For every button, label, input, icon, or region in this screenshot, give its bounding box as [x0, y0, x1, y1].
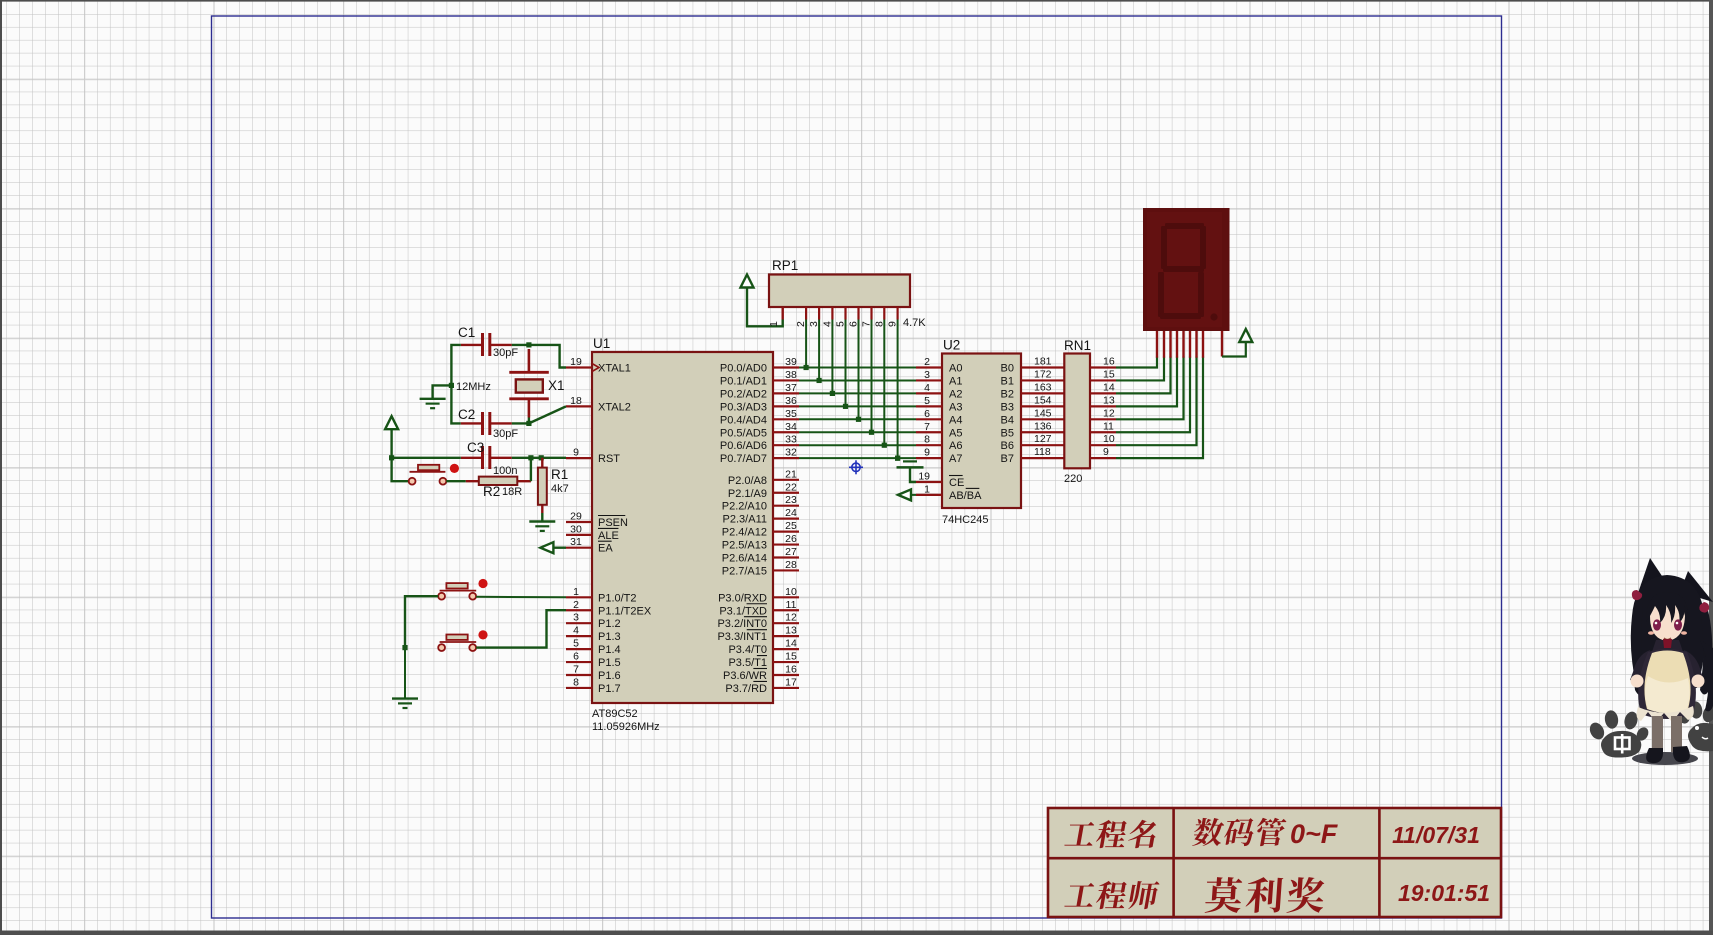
- svg-text:220: 220: [1064, 473, 1082, 485]
- ground at crystal: [420, 398, 446, 400]
- svg-text:1: 1: [924, 483, 930, 495]
- display segment pin 3: [1169, 331, 1171, 358]
- wire R2 to RST junction: [530, 458, 532, 481]
- U1 pin 26 P2.5/A13: [722, 533, 799, 552]
- svg-text:4.7K: 4.7K: [903, 317, 926, 329]
- svg-text:15: 15: [1103, 368, 1115, 380]
- U1 pin 3 P1.2: [566, 612, 621, 631]
- svg-text:RP1: RP1: [772, 258, 798, 273]
- microcontroller U1 AT89C52: [592, 352, 773, 703]
- svg-text:P1.6: P1.6: [598, 670, 621, 682]
- svg-text:P3.3/INT1: P3.3/INT1: [717, 631, 767, 643]
- svg-text:0~F: 0~F: [1290, 819, 1339, 849]
- svg-text:5: 5: [573, 638, 579, 650]
- capacitor C2 30pF: [458, 407, 518, 440]
- svg-text:P1.3: P1.3: [598, 631, 621, 643]
- svg-text:12MHz: 12MHz: [456, 381, 491, 393]
- title text 工程名: [1064, 822, 1096, 846]
- svg-text:2: 2: [573, 599, 579, 611]
- U1 pin 32 P0.7/AD7: [720, 447, 799, 466]
- U2 pin B2 with RN1 pin 3 wire: [1001, 381, 1064, 400]
- svg-text:26: 26: [785, 533, 797, 545]
- U1 pin 1 P1.0/T2: [566, 586, 637, 605]
- U1 pin 10 P3.0/RXD: [718, 586, 799, 605]
- U2 pin 9 A7: [916, 447, 962, 466]
- svg-text:B5: B5: [1001, 427, 1014, 439]
- svg-text:9: 9: [573, 447, 579, 459]
- svg-text:181: 181: [1034, 356, 1052, 368]
- U1 pin 23 P2.2/A10: [722, 494, 799, 513]
- wire P0.5 to A5: [799, 431, 916, 433]
- svg-text:36: 36: [785, 395, 797, 407]
- wire to crystal ground: [433, 385, 452, 398]
- svg-text:28: 28: [785, 559, 797, 571]
- title block table: [1048, 808, 1501, 917]
- svg-text:P2.3/A11: P2.3/A11: [723, 514, 767, 526]
- power arrow VCC at reset: [385, 416, 398, 429]
- wire button to R2: [446, 480, 466, 482]
- junction RP1-5: [843, 404, 848, 409]
- RP1 pin 2 wire to P0.0: [795, 307, 807, 368]
- svg-text:P3.0/RXD: P3.0/RXD: [718, 592, 767, 604]
- ground at R1: [529, 520, 555, 522]
- svg-text:B7: B7: [1001, 453, 1014, 465]
- svg-text:P1.7: P1.7: [598, 683, 621, 695]
- svg-text:P2.1/A9: P2.1/A9: [728, 488, 767, 500]
- wire K2 to P1.1: [476, 610, 566, 647]
- RP1 pin 5 wire to P0.3: [835, 307, 847, 406]
- U1 pin 15 P3.5/T1: [728, 651, 799, 670]
- svg-text:P3.6/WR: P3.6/WR: [723, 670, 767, 682]
- button RESET: [409, 464, 459, 485]
- U1 pin 8 P1.7: [566, 676, 621, 695]
- wire buttons to ground: [404, 648, 406, 699]
- svg-text:12: 12: [1103, 407, 1115, 419]
- U2 pin 5 A3: [916, 395, 962, 414]
- U2 pin B3 with RN1 pin 4 wire: [1001, 394, 1064, 413]
- wire P0.2 to A2: [799, 392, 916, 394]
- wire R1 to ground: [541, 513, 543, 522]
- svg-text:P0.3/AD3: P0.3/AD3: [720, 401, 767, 413]
- wire AB/BA arrow: [911, 494, 916, 496]
- U2 pin 6 A4: [916, 408, 962, 427]
- U2 pin 4 A2: [916, 382, 962, 401]
- RN1 pin 11 wire to display pin: [1090, 357, 1190, 433]
- svg-text:15: 15: [785, 651, 797, 663]
- wire K1 to P1.0: [476, 596, 566, 599]
- U1 pin 22 P2.1/A9: [728, 481, 799, 500]
- svg-text:XTAL1: XTAL1: [598, 363, 631, 375]
- junction RST-VCC: [389, 455, 394, 460]
- RP1 pin 6 wire to P0.4: [848, 307, 860, 419]
- svg-text:30pF: 30pF: [493, 428, 518, 440]
- svg-text:4: 4: [924, 382, 930, 394]
- wire VCC to button and RST line: [392, 429, 409, 481]
- svg-text:1: 1: [573, 586, 579, 598]
- U1 pin 19 XTAL1: [566, 356, 631, 375]
- svg-text:XTAL2: XTAL2: [598, 401, 631, 413]
- svg-text:2: 2: [795, 321, 807, 327]
- svg-text:3: 3: [924, 369, 930, 381]
- svg-text:136: 136: [1034, 420, 1052, 432]
- svg-text:163: 163: [1034, 381, 1052, 393]
- svg-text:22: 22: [785, 481, 797, 493]
- junction 12MHz: [449, 383, 454, 388]
- window edges: [0, 0, 1713, 2]
- U1 pin 33 P0.6/AD6: [720, 434, 799, 453]
- U1 pin 25 P2.4/A12: [722, 520, 799, 539]
- svg-text:10: 10: [1103, 433, 1115, 445]
- wire P0.0 to A0: [799, 367, 916, 369]
- svg-text:8: 8: [924, 434, 930, 446]
- svg-text:6: 6: [573, 651, 579, 663]
- svg-text:18: 18: [570, 395, 582, 407]
- svg-text:P2.6/A14: P2.6/A14: [722, 553, 767, 565]
- svg-text:P2.5/A13: P2.5/A13: [722, 540, 767, 552]
- svg-text:118: 118: [1034, 446, 1051, 458]
- display segment pin 1: [1156, 331, 1158, 358]
- svg-text:38: 38: [785, 369, 797, 381]
- svg-text:P3.2/INT0: P3.2/INT0: [717, 618, 767, 630]
- svg-text:C3: C3: [467, 440, 484, 455]
- svg-text:RN1: RN1: [1064, 338, 1091, 353]
- junction C3 right 2: [539, 455, 544, 460]
- svg-text:PSEN: PSEN: [598, 517, 628, 529]
- svg-text:4: 4: [821, 321, 833, 327]
- U1 pin 13 P3.3/INT1: [717, 625, 799, 644]
- svg-text:5: 5: [835, 321, 847, 327]
- svg-text:7: 7: [861, 321, 873, 327]
- U1 pin 34 P0.5/AD5: [720, 421, 799, 440]
- svg-text:32: 32: [785, 447, 797, 459]
- wire P0.6 to A6: [799, 444, 916, 446]
- junction RP1-7: [869, 430, 874, 435]
- svg-text:P3.7/RD: P3.7/RD: [725, 683, 767, 695]
- svg-text:P0.0/AD0: P0.0/AD0: [720, 363, 767, 375]
- svg-text:P0.4/AD4: P0.4/AD4: [720, 414, 767, 426]
- 7-segment display: [1143, 208, 1230, 331]
- display segment pin 2: [1163, 331, 1165, 358]
- display segment pin 8: [1202, 331, 1204, 358]
- svg-text:EA: EA: [598, 543, 613, 555]
- U1 pin 12 P3.2/INT0: [717, 612, 799, 631]
- wire C1 right / crystal top / XTAL1: [512, 345, 566, 368]
- power arrow VCC at RP1: [741, 275, 754, 288]
- paw print left: [1587, 709, 1651, 757]
- svg-text:9: 9: [887, 321, 899, 327]
- svg-text:3: 3: [808, 321, 820, 327]
- svg-text:39: 39: [785, 356, 797, 368]
- U2 pin 19 CE: [916, 471, 964, 490]
- svg-text:172: 172: [1034, 368, 1052, 380]
- junction crystal top: [526, 342, 531, 347]
- svg-text:127: 127: [1034, 433, 1052, 445]
- svg-text:6: 6: [924, 408, 930, 420]
- title text 工程师: [1064, 883, 1096, 907]
- svg-text:A1: A1: [949, 375, 962, 387]
- svg-text:13: 13: [785, 625, 797, 637]
- RN1 pin 15 wire to display pin: [1090, 357, 1164, 381]
- U1 pin 37 P0.2/AD2: [720, 382, 799, 401]
- wire C2 right / crystal bottom / XTAL2: [512, 422, 529, 424]
- RP1 pin 4 wire to P0.2: [821, 307, 833, 393]
- U2 pin 7 A5: [916, 421, 962, 440]
- arrow at EA: [540, 542, 553, 553]
- button K2: [438, 630, 487, 651]
- U2 pin B5 with RN1 pin 6 wire: [1001, 420, 1064, 439]
- svg-text:B6: B6: [1001, 440, 1014, 452]
- mascot character: [1630, 558, 1713, 765]
- U2 pin 8 A6: [916, 434, 962, 453]
- U1 pin 30 ALE: [566, 523, 619, 542]
- display common anode pin: [1221, 331, 1223, 357]
- RP1 pin 1 wire to VCC: [747, 288, 783, 327]
- paw print left glyph: [1615, 734, 1630, 754]
- svg-text:11/07/31: 11/07/31: [1392, 822, 1480, 848]
- svg-text:B0: B0: [1001, 363, 1014, 375]
- svg-text:B2: B2: [1001, 388, 1014, 400]
- svg-text:7: 7: [573, 664, 579, 676]
- svg-text:16: 16: [785, 664, 797, 676]
- svg-text:4k7: 4k7: [551, 483, 569, 495]
- RN1 pin 10 wire to display pin: [1090, 357, 1197, 446]
- crystal X1: [509, 349, 564, 418]
- svg-text:3: 3: [573, 612, 579, 624]
- svg-text:RST: RST: [598, 453, 620, 465]
- svg-text:5: 5: [924, 395, 930, 407]
- U1 pin 38 P0.1/AD1: [720, 369, 799, 388]
- power arrow VCC at display: [1239, 329, 1252, 342]
- RP1 pin 8 wire to P0.6: [873, 307, 885, 445]
- U1 pin 29 PSEN: [566, 511, 628, 530]
- ground at U2 CE: [897, 461, 924, 482]
- svg-text:A4: A4: [949, 414, 962, 426]
- U2 pin 1 AB/BA: [916, 483, 982, 502]
- U2 pin B4 with RN1 pin 5 wire: [1001, 407, 1064, 426]
- junction RP1-9: [895, 456, 900, 461]
- junction RP1-3: [817, 378, 822, 383]
- svg-text:8: 8: [573, 676, 579, 688]
- display segment pin 5: [1182, 331, 1184, 358]
- ground at buttons: [392, 697, 418, 699]
- svg-text:B1: B1: [1001, 375, 1014, 387]
- junction crystal bottom: [526, 421, 531, 426]
- svg-text:A2: A2: [949, 388, 962, 400]
- svg-text:P0.7/AD7: P0.7/AD7: [720, 453, 767, 465]
- junction RP1-4: [830, 391, 835, 396]
- RN1 pin 12 wire to display pin: [1090, 357, 1184, 420]
- svg-text:X1: X1: [548, 378, 565, 393]
- U1 pin 7 P1.6: [566, 664, 621, 683]
- svg-text:P1.1/T2EX: P1.1/T2EX: [598, 605, 652, 617]
- svg-text:P1.0/T2: P1.0/T2: [598, 592, 637, 604]
- svg-text:R1: R1: [551, 467, 568, 482]
- RN1 pin 13 wire to display pin: [1090, 357, 1177, 407]
- svg-text:P0.6/AD6: P0.6/AD6: [720, 440, 767, 452]
- U1 pin 14 P3.4/T0: [728, 638, 799, 657]
- svg-text:B3: B3: [1001, 401, 1014, 413]
- U1 pin 35 P0.4/AD4: [720, 408, 799, 427]
- display segment pin 6: [1189, 331, 1191, 358]
- svg-text:145: 145: [1034, 407, 1052, 419]
- wire P0.7 to A7: [799, 457, 916, 459]
- U1 pin 39 P0.0/AD0: [720, 356, 799, 375]
- svg-text:P3.4/T0: P3.4/T0: [728, 644, 767, 656]
- U2 pin 3 A1: [916, 369, 962, 388]
- buffer U2 74HC245: [942, 354, 1021, 509]
- svg-text:C1: C1: [458, 325, 475, 340]
- svg-text:33: 33: [785, 434, 797, 446]
- svg-text:9: 9: [924, 447, 930, 459]
- RP1 pin 3 wire to P0.1: [808, 307, 820, 380]
- U2 pin 2 A0: [916, 356, 962, 375]
- svg-text:13: 13: [1103, 394, 1115, 406]
- svg-text:154: 154: [1034, 394, 1052, 406]
- button K1: [438, 579, 487, 600]
- U1 pin 36 P0.3/AD3: [720, 395, 799, 414]
- svg-text:4: 4: [573, 625, 579, 637]
- svg-text:16: 16: [1103, 356, 1115, 368]
- svg-text:P0.1/AD1: P0.1/AD1: [720, 375, 767, 387]
- U1 pin 5 P1.4: [566, 638, 621, 657]
- paw print right: [1674, 701, 1713, 752]
- svg-text:9: 9: [1103, 446, 1109, 458]
- svg-text:P3.1/TXD: P3.1/TXD: [719, 605, 767, 617]
- display segment pin 7: [1195, 331, 1197, 358]
- junction buttons: [402, 645, 407, 650]
- svg-text:6: 6: [848, 321, 860, 327]
- svg-text:AB/BA: AB/BA: [949, 490, 982, 502]
- title text 莫利奖: [1205, 877, 1243, 913]
- wire C1 left to 12MHz node: [451, 345, 460, 424]
- svg-text:A0: A0: [949, 363, 962, 375]
- svg-text:A7: A7: [949, 453, 962, 465]
- wire P0.3 to A3: [799, 405, 916, 407]
- RP1 pin 9 wire to P0.7: [887, 307, 899, 458]
- svg-text:8: 8: [873, 321, 885, 327]
- svg-text:A6: A6: [949, 440, 962, 452]
- resistor R1 4k7: [538, 458, 569, 513]
- svg-text:P2.2/A10: P2.2/A10: [722, 501, 767, 513]
- U1 pin 27 P2.6/A14: [722, 546, 799, 565]
- svg-text:35: 35: [785, 408, 797, 420]
- svg-text:25: 25: [785, 520, 797, 532]
- resistor pack RP1 4.7K: [769, 275, 910, 308]
- svg-text:12: 12: [785, 612, 797, 624]
- title text 数码管0~F: [1192, 818, 1226, 846]
- svg-text:B4: B4: [1001, 414, 1014, 426]
- svg-text:P1.4: P1.4: [598, 644, 621, 656]
- svg-text:P2.0/A8: P2.0/A8: [728, 475, 767, 487]
- svg-text:30: 30: [570, 523, 582, 535]
- U2 pin B1 with RN1 pin 2 wire: [1001, 368, 1064, 387]
- U1 pin 24 P2.3/A11: [723, 507, 799, 526]
- svg-text:1: 1: [768, 321, 780, 327]
- U1 pin 16 P3.6/WR: [723, 664, 799, 683]
- wire RST row left segment: [392, 457, 461, 459]
- sheet border: [212, 16, 1502, 918]
- wire K1 left: [405, 596, 438, 647]
- junction C3 right 1: [528, 455, 533, 460]
- U2 pin B6 with RN1 pin 7 wire: [1001, 433, 1064, 452]
- svg-text:11: 11: [786, 599, 797, 611]
- U1 pin 4 P1.3: [566, 625, 621, 644]
- U1 pin 28 P2.7/A15: [722, 559, 799, 578]
- svg-text:P1.2: P1.2: [598, 618, 621, 630]
- capacitor C1 30pF: [458, 325, 518, 359]
- svg-text:U1: U1: [593, 336, 610, 351]
- wire RST row right segment: [512, 457, 566, 459]
- U1 pin 18 XTAL2: [566, 395, 631, 414]
- svg-text:C2: C2: [458, 407, 475, 422]
- junction RP1-2: [804, 365, 809, 370]
- svg-text:2: 2: [924, 356, 930, 368]
- svg-text:17: 17: [785, 676, 797, 688]
- arrow at U2 AB/BA: [898, 489, 911, 500]
- svg-text:19: 19: [918, 471, 930, 483]
- U1 pin 9 RST: [566, 447, 620, 466]
- svg-text:P1.5: P1.5: [598, 657, 621, 669]
- svg-text:29: 29: [570, 511, 582, 523]
- svg-text:P2.7/A15: P2.7/A15: [722, 565, 767, 577]
- resistor R2 18R: [466, 477, 531, 499]
- svg-text:18R: 18R: [502, 486, 522, 498]
- svg-text:19: 19: [570, 356, 582, 368]
- svg-text:7: 7: [924, 421, 930, 433]
- wire P0.1 to A1: [799, 379, 916, 381]
- wire EA arrow: [553, 547, 566, 549]
- svg-text:37: 37: [785, 382, 797, 394]
- junction RP1-6: [856, 417, 861, 422]
- U1 pin 11 P3.1/TXD: [719, 599, 799, 618]
- svg-text:30pF: 30pF: [493, 347, 518, 359]
- junction RP1-8: [882, 443, 887, 448]
- RN1 pin 16 wire to display pin: [1090, 356, 1157, 368]
- svg-text:R2: R2: [483, 484, 500, 499]
- wire P0.4 to A4: [799, 418, 916, 420]
- svg-text:U2: U2: [943, 338, 960, 353]
- U2 pin B0 with RN1 pin 1 wire: [1001, 356, 1064, 375]
- svg-text:11: 11: [1103, 420, 1114, 432]
- RP1 pin 7 wire to P0.5: [861, 307, 873, 432]
- junction P0.7 ground stem: [895, 456, 900, 461]
- display segment pin 4: [1176, 331, 1178, 358]
- U1 pin 6 P1.5: [566, 651, 621, 670]
- svg-text:A3: A3: [949, 401, 962, 413]
- svg-text:21: 21: [785, 468, 797, 480]
- origin marker: [849, 460, 863, 474]
- svg-text:AT89C52: AT89C52: [592, 708, 638, 720]
- svg-text:P0.5/AD5: P0.5/AD5: [720, 427, 767, 439]
- svg-text:14: 14: [1103, 381, 1115, 393]
- svg-text:24: 24: [785, 507, 797, 519]
- svg-text:ALE: ALE: [598, 530, 619, 542]
- capacitor C3 100n: [461, 440, 518, 477]
- svg-text:CE: CE: [949, 477, 964, 489]
- resistor network RN1 220: [1064, 354, 1090, 469]
- svg-text:23: 23: [785, 494, 797, 506]
- U1 pin 2 P1.1/T2EX: [566, 599, 652, 618]
- U1 pin 31 EA: [566, 536, 613, 555]
- svg-text:34: 34: [785, 421, 797, 433]
- svg-text:74HC245: 74HC245: [942, 514, 988, 526]
- svg-text:14: 14: [785, 638, 797, 650]
- svg-text:P2.4/A12: P2.4/A12: [722, 527, 767, 539]
- svg-text:19:01:51: 19:01:51: [1398, 880, 1490, 906]
- RN1 pin 14 wire to display pin: [1090, 357, 1171, 394]
- wire diagonal to XTAL2: [529, 406, 566, 423]
- U1 pin 21 P2.0/A8: [728, 468, 799, 487]
